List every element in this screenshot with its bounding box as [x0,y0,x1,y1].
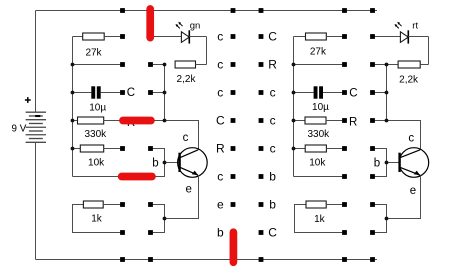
svg-text:330k: 330k [307,129,330,140]
wire right base row5 stub [373,149,387,163]
wire left row2 bus to pin [73,64,123,66]
wire right bus vertical [293,37,295,177]
wire right row2 bus to pin [294,64,345,66]
svg-text:1k: 1k [314,214,326,225]
svg-text:9 V: 9 V [12,123,27,134]
svg-text:b: b [269,170,276,184]
svg-text:b: b [269,198,276,212]
wire right emitter row8 stub [373,219,387,233]
wire right collector [373,120,387,122]
wire right row6 bus to pin [294,176,345,178]
svg-text:C: C [268,30,277,44]
junction dots right node column [385,63,389,221]
capacitor C2 10µ [294,86,345,113]
battery BAT1 9V [12,11,46,260]
resistor R5 1k [73,201,123,233]
svg-text:c: c [270,114,276,128]
wire left emitter row8 stub [151,219,165,233]
breadboard pin column 3 [231,34,236,235]
svg-text:10µ: 10µ [89,103,106,114]
transistor Q1 NPN [152,132,207,195]
svg-text:C: C [216,114,225,128]
node letters middle-left column [216,30,225,240]
svg-text:b: b [217,226,224,240]
wire right base row6 stub [373,163,387,177]
wire left LED to corner [189,36,206,38]
svg-text:10µ: 10µ [312,102,329,113]
svg-text:2,2k: 2,2k [177,74,197,85]
svg-text:c: c [270,142,276,156]
resistor R1 27k [73,33,123,58]
red jumper row6 (base node) [122,173,152,181]
svg-text:b: b [374,158,380,170]
svg-text:R: R [216,142,225,156]
red jumper top (rail to LED row) [146,9,154,38]
wire right emitter row7 stub [373,205,387,219]
wire right col2 row2 stub [373,64,387,66]
svg-text:10k: 10k [309,157,326,168]
wire left emitter row7 stub [151,205,165,219]
wire right 2.2k junction vertical [386,65,388,121]
svg-text:R: R [349,116,357,128]
svg-text:c: c [183,132,189,144]
svg-text:C: C [349,87,357,99]
resistor R9 2,2k [387,61,429,85]
wire left row1 to LED [151,36,182,38]
LED D1 gn gn [176,20,201,43]
wire left collector [165,121,199,151]
svg-text:b: b [152,158,158,170]
wire left emitter [165,176,199,219]
wire top power rail [36,10,378,12]
wire right base [387,162,400,164]
node letters middle-right column [268,30,277,240]
svg-text:rt: rt [412,20,418,31]
svg-text:c: c [217,30,223,44]
svg-text:27k: 27k [310,46,327,57]
svg-text:e: e [410,185,416,197]
breadboard pin column 1 [120,34,125,235]
resistor R2 330k [73,117,165,140]
svg-text:gn: gn [190,20,201,31]
red jumper row4 (R node) [123,117,151,125]
svg-text:c: c [217,58,223,72]
LED D2 rt rt [395,20,419,43]
breadboard pins top rail [120,8,375,13]
wire left base row5 stub [151,149,165,163]
wire left LED loop corner [206,37,208,65]
wire left col2 row2 stub [151,64,165,66]
breadboard pins bottom rail [120,257,375,262]
svg-text:R: R [268,58,277,72]
wire left col2 row3 stub [151,92,165,94]
svg-text:c: c [270,86,276,100]
svg-text:1k: 1k [91,214,103,225]
wire left row6 bus to base jumper [73,163,165,177]
wire right row1 to LED [373,36,401,38]
svg-text:e: e [217,198,224,212]
wire right emitter [387,176,421,219]
svg-text:e: e [185,184,191,196]
svg-text:10k: 10k [88,157,105,168]
wire left bus vertical [72,37,74,177]
breadboard pin column 6 [370,34,375,235]
breadboard pin column 5 [342,34,347,235]
svg-text:C: C [127,87,135,99]
svg-text:c: c [217,170,223,184]
resistor R8 10k [294,145,345,168]
svg-text:330k: 330k [84,129,107,140]
wire left 2.2k junction vertical [164,65,166,121]
svg-text:2,2k: 2,2k [399,74,419,85]
resistor R6 27k [294,33,345,57]
red jumper bottom (row8 to rail) [230,232,238,262]
wire right col2 row3 stub [373,92,387,94]
resistor R7 330k [294,117,345,140]
wire right LED loop corner [428,37,430,65]
svg-text:27k: 27k [85,47,102,58]
resistor R3 10k [73,145,123,168]
resistor R4 2,2k [175,61,206,85]
resistor R10 1k [295,201,345,233]
breadboard pin column 4 [259,34,264,235]
wire left base [165,162,180,164]
wire right LED to corner [408,36,428,38]
junction dots right bus [292,63,296,151]
junction dots left bus [71,63,75,151]
svg-text:c: c [217,86,223,100]
transistor Q2 NPN [374,133,429,197]
junction dots left node column [163,63,167,221]
wire bottom power rail [36,259,378,261]
capacitor C1 10µ [73,86,123,113]
breadboard pin column 2 [148,34,153,235]
svg-text:C: C [268,226,277,240]
svg-text:c: c [408,133,414,145]
